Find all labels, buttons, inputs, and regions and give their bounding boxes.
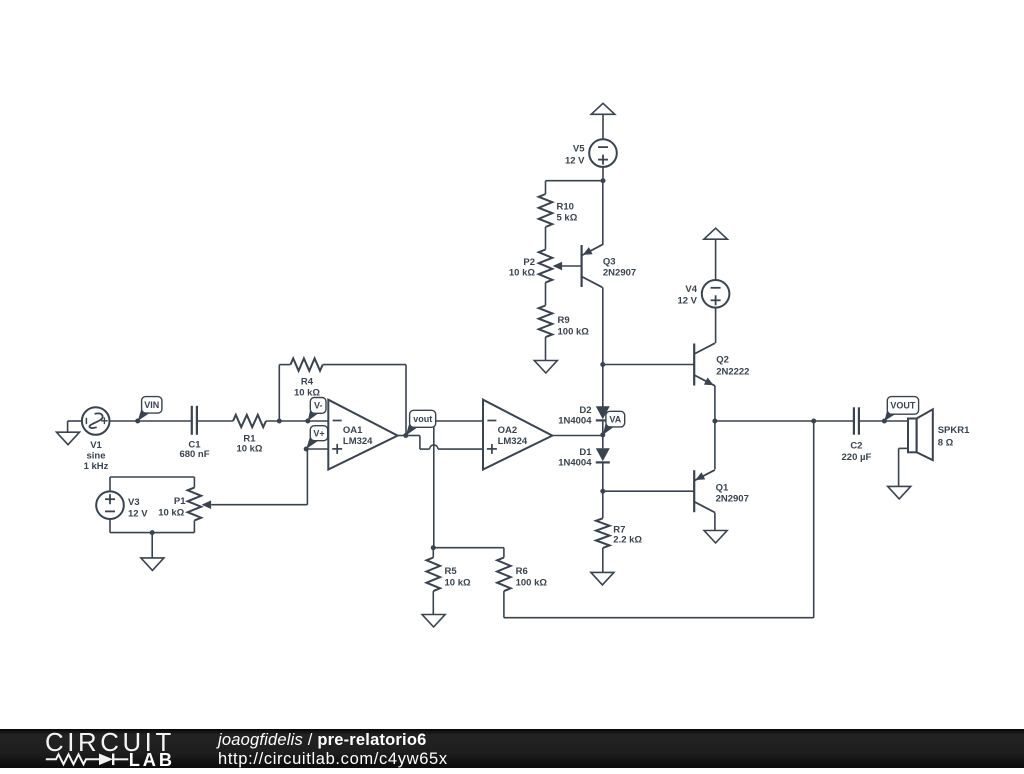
svg-text:V+: V+	[313, 428, 324, 438]
resistor R4 10 k (feedback)	[291, 358, 323, 398]
resistor R10 5 k	[539, 194, 578, 227]
svg-text:VA: VA	[609, 414, 621, 424]
wire: Q3 collector down to Q2 base junction	[600, 287, 605, 367]
svg-text:P2: P2	[523, 257, 535, 268]
resistor R7 2.2 k	[596, 518, 642, 548]
svg-text:VIN: VIN	[144, 400, 159, 410]
node vout flag	[403, 410, 435, 438]
wire: R9 to ground	[545, 337, 547, 360]
wire: junction to Q2 base	[603, 364, 694, 366]
svg-text:2.2 kΩ: 2.2 kΩ	[613, 535, 642, 546]
ground (Q1)	[704, 531, 727, 544]
resistor R9 100 k	[539, 306, 590, 338]
svg-text:2N2907: 2N2907	[603, 268, 636, 279]
wire: P2 wiper to Q3 base	[560, 265, 582, 267]
svg-text:R4: R4	[301, 376, 314, 387]
svg-text:P1: P1	[174, 496, 186, 507]
svg-text:OA1: OA1	[343, 425, 363, 436]
svg-text:12 V: 12 V	[677, 296, 697, 307]
wire: R5 to ground	[432, 591, 434, 614]
wire: V4 to Q2 collector	[715, 308, 717, 344]
svg-text:12 V: 12 V	[128, 509, 148, 520]
author / title	[216, 731, 448, 768]
svg-text:R5: R5	[445, 566, 458, 577]
wire: V5 to junction	[601, 167, 606, 183]
svg-text:10 kΩ: 10 kΩ	[294, 387, 320, 398]
wire: junction to R10	[546, 181, 604, 194]
ground (R5)	[422, 615, 445, 628]
wire: junction up to R4	[277, 365, 291, 424]
voltage source V1 sine 1 kHz	[82, 407, 110, 472]
wire: V3 bottom rail to P1	[110, 519, 194, 535]
resistor R1 10 k	[233, 415, 266, 455]
transistor Q3 2N2907	[582, 245, 637, 288]
wire: OA1 output stub	[398, 435, 406, 437]
wire: OA1 output to OA2 non-inverting input (with hop)	[406, 436, 483, 450]
svg-text:vout: vout	[413, 414, 432, 424]
svg-text:100 kΩ: 100 kΩ	[558, 327, 590, 338]
svg-text:C2: C2	[850, 440, 862, 451]
wire: junction to Q1 base	[603, 490, 694, 492]
svg-text:8 Ω: 8 Ω	[938, 437, 954, 448]
svg-text:10 kΩ: 10 kΩ	[445, 578, 471, 589]
wire: feedback bottom run to R6	[504, 591, 814, 618]
svg-text:LM324: LM324	[498, 436, 528, 447]
svg-text:5 kΩ: 5 kΩ	[557, 213, 578, 224]
wire: R6 to R5 junction	[431, 545, 504, 557]
diode D2 1N4004	[558, 405, 610, 427]
svg-text:1N4004: 1N4004	[558, 457, 592, 468]
node VOUT flag	[882, 397, 919, 424]
capacitor C2 220 uF	[842, 407, 872, 463]
svg-text:VOUT: VOUT	[890, 401, 916, 411]
ground (SPKR1)	[888, 486, 911, 499]
svg-text:Q1: Q1	[716, 483, 729, 494]
svg-text:1N4004: 1N4004	[558, 415, 592, 426]
voltage source V3 12 V	[96, 491, 148, 519]
svg-text:Q2: Q2	[716, 355, 729, 366]
svg-text:V3: V3	[128, 497, 140, 508]
resistor R6 100 k	[497, 558, 547, 592]
svg-text:10 kΩ: 10 kΩ	[158, 508, 184, 519]
svg-text:1 kHz: 1 kHz	[84, 461, 109, 472]
wire: C2 to speaker	[859, 420, 908, 422]
wire: D1 to Q1 base junction	[600, 462, 605, 493]
svg-text:V5: V5	[573, 144, 585, 155]
svg-text:10 kΩ: 10 kΩ	[509, 268, 535, 279]
wire: vout node down to R5/R6 junction	[433, 421, 435, 548]
svg-text:D1: D1	[579, 447, 592, 458]
op-amp OA2 LM324	[483, 400, 552, 470]
ground (V3/P1)	[141, 558, 164, 571]
wire: V1 left terminal to ground	[68, 421, 82, 432]
CircuitLab logo	[45, 729, 175, 770]
voltage source V4 12 V	[677, 280, 729, 308]
svg-text:Q3: Q3	[603, 256, 616, 267]
wire: R10 to P2	[545, 227, 547, 250]
wire: R4 to OA1 output node	[323, 365, 406, 436]
resistor R5 10 k	[427, 548, 471, 591]
svg-text:V4: V4	[685, 284, 697, 295]
wire: junction down to R7	[602, 491, 604, 518]
wire: bottom rail to ground	[151, 533, 153, 558]
diode D1 1N4004	[558, 447, 610, 469]
transistor Q1 2N2907	[694, 470, 749, 513]
potentiometer P1 10 k	[158, 488, 211, 521]
ground (R9)	[534, 361, 557, 374]
wire: feedback node junction	[811, 419, 816, 618]
node VA flag	[600, 411, 624, 437]
svg-text:220 µF: 220 µF	[842, 452, 872, 463]
svg-text:OA2: OA2	[498, 425, 518, 436]
wire: vout node to OA2 inverting input	[411, 420, 483, 422]
wire: R7 to ground	[602, 548, 604, 573]
wire: V3 top rail to P1	[110, 477, 194, 491]
ground (R7)	[591, 572, 614, 585]
wire: P2 to R9	[545, 283, 547, 306]
wire: R1 to OA1 inverting input	[266, 420, 328, 422]
wire: D2 to VA node to D1	[602, 420, 604, 448]
node VIN flag	[135, 397, 162, 424]
wire: Q2 emitter down to output node	[712, 386, 717, 424]
svg-text:R9: R9	[558, 315, 570, 326]
transistor Q2 2N2222	[694, 343, 749, 386]
wire: C1 to R1	[197, 420, 233, 422]
wire: OA2 output to VA node	[552, 435, 603, 437]
node V+ flag	[304, 426, 328, 452]
svg-text:V-: V-	[314, 401, 323, 411]
wire: Q1 collector to ground	[714, 513, 716, 531]
svg-text:LAB: LAB	[129, 750, 175, 769]
wire: V1 to C1	[110, 420, 192, 422]
svg-text:2N2222: 2N2222	[716, 367, 749, 378]
power supply arrow (V4 +12V rail)	[704, 228, 728, 280]
svg-text:10 kΩ: 10 kΩ	[236, 444, 262, 455]
voltage source V5 12 V	[565, 139, 617, 167]
svg-text:LM324: LM324	[343, 436, 373, 447]
svg-text:R10: R10	[557, 202, 574, 213]
wire: V5 rail down to Q3 emitter	[602, 181, 604, 245]
node V- flag	[305, 398, 326, 424]
svg-text:V1: V1	[90, 440, 102, 451]
op-amp OA1 LM324	[328, 400, 397, 470]
speaker SPKR1 8 ohm	[908, 409, 970, 460]
power supply arrow (V5 +12V rail)	[591, 103, 615, 139]
capacitor C1 680 nF	[179, 406, 209, 460]
potentiometer P2 10 k	[509, 250, 562, 283]
wire: junction down to D2	[602, 365, 604, 407]
wire: output node to C2	[715, 420, 854, 422]
svg-text:12 V: 12 V	[565, 156, 585, 167]
svg-text:D2: D2	[579, 405, 591, 416]
wire: output node to Q1 emitter	[714, 421, 716, 469]
svg-text:joaogfidelis / pre-relatorio6: joaogfidelis / pre-relatorio6	[216, 731, 427, 749]
wire: speaker return to ground	[899, 448, 908, 486]
svg-text:http://circuitlab.com/c4yw65x: http://circuitlab.com/c4yw65x	[218, 750, 448, 768]
svg-text:680 nF: 680 nF	[179, 449, 209, 460]
wire: V+ into OA1 non-inverting input	[306, 448, 328, 450]
svg-text:2N2907: 2N2907	[716, 494, 749, 505]
ground (V1)	[57, 432, 80, 445]
svg-text:SPKR1: SPKR1	[938, 425, 970, 436]
svg-text:100 kΩ: 100 kΩ	[516, 578, 548, 589]
svg-text:R6: R6	[516, 566, 528, 577]
wire: P1 wiper up to V+	[211, 449, 307, 505]
